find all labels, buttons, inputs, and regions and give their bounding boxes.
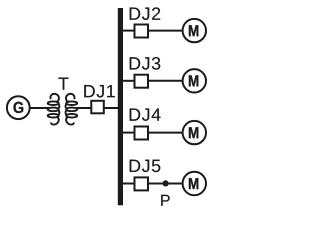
label G [13, 102, 23, 113]
breaker DJ4 [135, 127, 149, 140]
label DJ5 [130, 160, 161, 172]
transformer T primary winding [48, 94, 60, 125]
feeder DJ4: wire busbar to breaker [123, 132, 135, 134]
label DJ4 [130, 108, 161, 120]
wire DJ2 breaker to motor [148, 30, 182, 32]
label DJ1 [84, 85, 115, 97]
generator G circle [7, 96, 30, 119]
breaker DJ5 [135, 177, 149, 190]
wire DJ5 breaker to motor [148, 183, 182, 185]
motor M circle (DJ2) [183, 19, 206, 42]
label T [58, 78, 68, 90]
busbar [118, 8, 123, 205]
breaker DJ3 [135, 75, 149, 88]
wire DJ3 breaker to motor [148, 80, 182, 82]
feeder DJ2: wire busbar to breaker [123, 30, 135, 32]
node P dot [163, 180, 169, 186]
breaker DJ2 [135, 25, 149, 38]
motor M circle (DJ4) [183, 121, 206, 144]
motor M circle (DJ5) [183, 172, 206, 195]
transformer T secondary winding [66, 94, 78, 125]
motor M circle (DJ3) [183, 69, 206, 92]
wire DJ1 to busbar [104, 107, 118, 109]
motor letter M (DJ5) [189, 178, 198, 189]
wire DJ4 breaker to motor [148, 132, 182, 134]
label DJ3 [130, 57, 161, 70]
wire transformer to DJ1 [76, 107, 92, 109]
feeder DJ3: wire busbar to breaker [123, 80, 135, 82]
wire G to transformer [30, 107, 49, 109]
label P [161, 195, 170, 206]
motor letter M (DJ2) [189, 25, 198, 36]
feeder DJ5: wire busbar to breaker [123, 183, 135, 185]
motor letter M (DJ4) [189, 127, 198, 138]
breaker DJ1 [91, 101, 104, 114]
label DJ2 [130, 7, 161, 20]
motor letter M (DJ3) [189, 75, 198, 86]
